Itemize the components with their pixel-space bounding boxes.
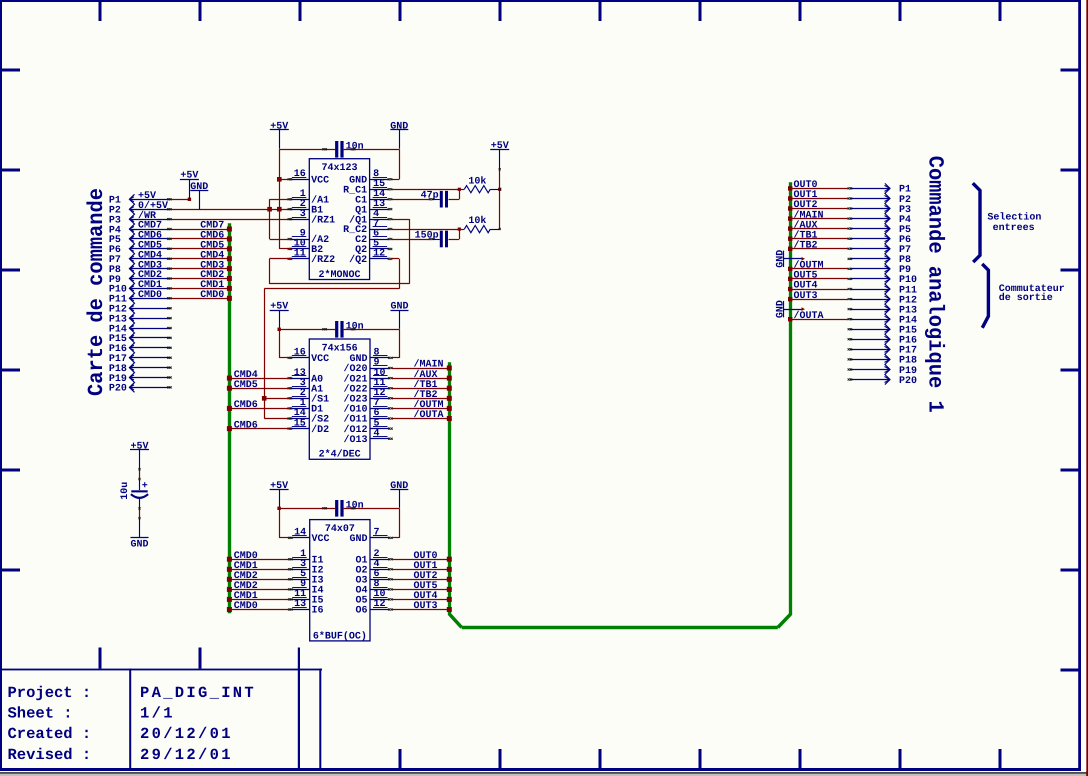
svg-text:7: 7 [374,528,380,539]
svg-text:PA_DIG_INT: PA_DIG_INT [140,684,256,702]
svg-text:de sortie: de sortie [999,292,1053,304]
svg-text:15: 15 [294,418,306,429]
svg-text:Project :: Project : [8,684,92,702]
svg-text:Carte de commande: Carte de commande [85,188,109,396]
svg-text:CMD6: CMD6 [234,420,258,431]
svg-text:/Q2: /Q2 [349,254,367,266]
svg-text:16: 16 [294,169,306,180]
svg-text:entrees: entrees [993,223,1035,234]
svg-text:CMD0: CMD0 [234,601,258,612]
svg-text:10n: 10n [346,501,364,512]
svg-text:16: 16 [294,348,306,359]
svg-text:3: 3 [300,209,306,220]
svg-text:VCC: VCC [311,176,329,187]
svg-text:+: + [142,481,148,492]
svg-text:CMD0: CMD0 [138,290,162,301]
svg-text:Revised :: Revised : [8,746,92,764]
svg-text:OUT3: OUT3 [414,601,438,612]
svg-text:CMD0: CMD0 [200,290,224,301]
svg-text:74x156: 74x156 [322,343,358,354]
svg-text:2*MONOC: 2*MONOC [318,269,360,281]
svg-text:/TB2: /TB2 [794,240,818,252]
svg-text:74x123: 74x123 [321,163,357,174]
svg-text:10n: 10n [346,322,364,333]
svg-text:GND: GND [775,250,786,268]
svg-text:13: 13 [294,599,306,610]
svg-text:11: 11 [294,249,306,260]
svg-text:Commande analogique 1: Commande analogique 1 [923,156,947,413]
svg-text:/OUTA: /OUTA [414,409,444,421]
svg-text:/RZ2: /RZ2 [311,254,335,266]
svg-text:12: 12 [374,599,386,610]
svg-text:GND: GND [349,534,367,545]
svg-text:2*4/DEC: 2*4/DEC [319,449,361,461]
svg-text:P20: P20 [899,376,917,387]
svg-text:20/12/01: 20/12/01 [140,725,233,743]
svg-text:12: 12 [373,249,385,260]
svg-text:/OUTA: /OUTA [794,310,824,322]
svg-text:4: 4 [374,428,380,439]
svg-text:14: 14 [294,528,306,539]
svg-text:10k: 10k [468,175,486,187]
svg-text:/O13: /O13 [343,434,367,446]
svg-text:GND: GND [775,300,786,318]
svg-text:GND: GND [130,539,148,550]
svg-text:P20: P20 [109,384,127,395]
svg-text:10u: 10u [120,482,131,500]
svg-text:O6: O6 [355,606,367,617]
svg-text:150p: 150p [415,231,439,242]
svg-text:Created :: Created : [8,725,92,743]
svg-text:Sheet :: Sheet : [8,705,73,723]
svg-text:10k: 10k [468,215,486,227]
svg-text:/D2: /D2 [311,424,329,436]
svg-text:1/1: 1/1 [140,705,175,723]
svg-text:/RZ1: /RZ1 [311,214,335,226]
svg-text:VCC: VCC [311,354,329,365]
svg-text:CMD6: CMD6 [234,400,258,411]
svg-text:29/12/01: 29/12/01 [140,746,233,764]
svg-text:47p: 47p [421,191,439,202]
svg-text:10n: 10n [346,142,364,153]
svg-text:Selection: Selection [987,212,1041,224]
svg-text:VCC: VCC [312,534,330,545]
svg-text:6*BUF(OC): 6*BUF(OC) [313,630,367,642]
svg-text:I6: I6 [312,606,324,617]
svg-text:OUT3: OUT3 [794,291,818,302]
svg-text:CMD5: CMD5 [234,380,258,391]
